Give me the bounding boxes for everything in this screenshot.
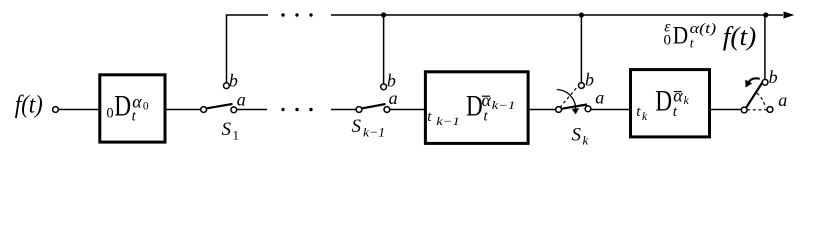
svg-text:a: a xyxy=(595,87,604,107)
svg-text:t: t xyxy=(690,36,695,51)
svg-text:b: b xyxy=(387,70,396,90)
svg-text:0: 0 xyxy=(143,101,149,113)
svg-text:a: a xyxy=(237,89,246,109)
svg-text:t: t xyxy=(636,104,641,120)
svg-text:f(t): f(t) xyxy=(15,91,43,118)
svg-text:t: t xyxy=(673,104,678,120)
svg-text:D: D xyxy=(466,89,483,122)
svg-text:k−1: k−1 xyxy=(436,116,460,128)
svg-text:k−1: k−1 xyxy=(363,124,385,139)
svg-text:α: α xyxy=(132,91,142,111)
svg-text:0: 0 xyxy=(106,106,113,122)
svg-text:k: k xyxy=(642,111,648,123)
svg-text:b: b xyxy=(585,69,594,89)
svg-text:k: k xyxy=(583,132,589,147)
svg-text:f(t): f(t) xyxy=(723,22,757,51)
svg-text:α: α xyxy=(482,90,492,110)
svg-text:S: S xyxy=(572,124,582,145)
svg-text:D: D xyxy=(673,22,688,49)
svg-text:k−1: k−1 xyxy=(492,100,516,112)
svg-text:t: t xyxy=(427,109,432,125)
svg-text:t: t xyxy=(484,109,489,125)
svg-text:1: 1 xyxy=(233,127,240,142)
svg-text:0: 0 xyxy=(664,33,672,49)
svg-text:S: S xyxy=(352,116,362,137)
svg-text:a: a xyxy=(778,90,787,110)
svg-text:α(t): α(t) xyxy=(690,21,717,37)
svg-text:S: S xyxy=(222,119,232,140)
svg-text:a: a xyxy=(389,88,398,108)
svg-text:D: D xyxy=(114,89,131,122)
svg-text:b: b xyxy=(769,67,778,87)
svg-text:D: D xyxy=(655,85,672,118)
svg-text:k: k xyxy=(684,95,690,107)
svg-text:b: b xyxy=(229,70,238,90)
svg-text:α: α xyxy=(673,86,683,106)
